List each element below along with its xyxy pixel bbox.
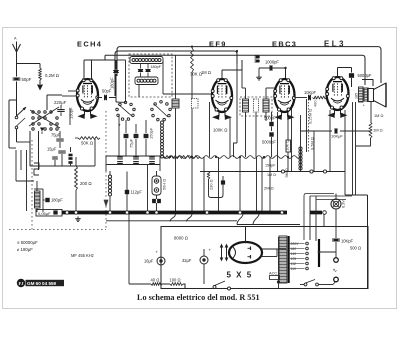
svg-text:0,2M Ω: 0,2M Ω (45, 73, 60, 78)
svg-text:50K Ω: 50K Ω (81, 141, 94, 146)
svg-text:32μF: 32μF (182, 258, 192, 263)
svg-text:0,05μF: 0,05μF (38, 211, 51, 216)
svg-text:500 Ω: 500 Ω (350, 246, 361, 251)
svg-text:500pF: 500pF (264, 116, 276, 121)
svg-text:160: 160 (291, 247, 297, 251)
svg-text:400 Ω: 400 Ω (313, 96, 318, 107)
svg-text:10KpF: 10KpF (304, 90, 317, 95)
svg-text:150pF: 150pF (149, 127, 154, 139)
svg-text:180pF: 180pF (151, 65, 162, 69)
svg-text:1M Ω: 1M Ω (374, 113, 383, 118)
svg-text:MF 455 KHz: MF 455 KHz (71, 253, 94, 258)
svg-text:10K Ω: 10K Ω (285, 140, 290, 151)
svg-text:180μF: 180μF (51, 198, 63, 203)
svg-text:220V: 220V (291, 242, 300, 246)
svg-text:130pF: 130pF (69, 107, 74, 119)
svg-text:40 Ω: 40 Ω (151, 278, 160, 283)
svg-text:16μF: 16μF (144, 259, 154, 264)
svg-text:Lo schema elettrico del mod. R: Lo schema elettrico del mod. R 551 (137, 293, 260, 302)
svg-text:112μF: 112μF (131, 190, 143, 195)
svg-text:50H Ω: 50H Ω (162, 179, 167, 190)
svg-text:≡ 50000μF: ≡ 50000μF (17, 240, 38, 245)
svg-text:112: 112 (291, 262, 297, 266)
svg-text:FJ: FJ (19, 281, 25, 286)
svg-text:75μF: 75μF (51, 133, 61, 138)
svg-text:50pF: 50pF (102, 89, 112, 94)
svg-text:EBC3: EBC3 (272, 40, 297, 49)
svg-text:15μF: 15μF (47, 147, 57, 152)
svg-text:100 Ω: 100 Ω (170, 278, 181, 283)
svg-text:185: 185 (355, 93, 359, 99)
svg-text:1000pF: 1000pF (265, 60, 279, 65)
svg-text:180pF: 180pF (110, 77, 115, 89)
svg-text:5 X 5: 5 X 5 (227, 271, 253, 280)
svg-text:≠ 180μF: ≠ 180μF (17, 247, 33, 252)
svg-text:5000pF: 5000pF (262, 140, 276, 145)
svg-text:50pF: 50pF (22, 77, 32, 82)
svg-text:ACC.: ACC. (269, 271, 278, 276)
svg-text:5M Ω: 5M Ω (285, 168, 289, 177)
svg-text:GM 60 04 559: GM 60 04 559 (27, 281, 57, 286)
svg-text:1M Ω: 1M Ω (267, 173, 276, 177)
svg-text:110: 110 (291, 267, 297, 271)
svg-text:ECH4: ECH4 (77, 40, 102, 49)
svg-text:75μF: 75μF (129, 138, 134, 148)
svg-text:0,25M Ω: 0,25M Ω (308, 109, 313, 124)
svg-text:220μF: 220μF (54, 100, 67, 105)
svg-text:∿: ∿ (333, 268, 338, 274)
svg-text:5000pF: 5000pF (358, 73, 372, 78)
svg-text:6,3V: 6,3V (342, 200, 346, 208)
svg-text:1M Ω: 1M Ω (201, 70, 211, 75)
svg-text:EF9: EF9 (209, 40, 227, 49)
svg-text:150pF: 150pF (265, 164, 276, 168)
svg-text:10KpF: 10KpF (341, 239, 354, 244)
svg-text:2M Ω: 2M Ω (264, 186, 274, 191)
svg-text:200 Ω: 200 Ω (80, 181, 92, 186)
svg-text:125: 125 (291, 257, 297, 261)
svg-text:1M Ω: 1M Ω (373, 128, 383, 133)
svg-text:EL3: EL3 (324, 40, 346, 49)
svg-text:8000 Ω: 8000 Ω (174, 236, 189, 241)
svg-text:10KμF: 10KμF (331, 134, 343, 139)
svg-text:140: 140 (291, 252, 297, 256)
svg-text:100K Ω: 100K Ω (213, 128, 228, 133)
svg-text:230 Ω: 230 Ω (209, 179, 214, 190)
